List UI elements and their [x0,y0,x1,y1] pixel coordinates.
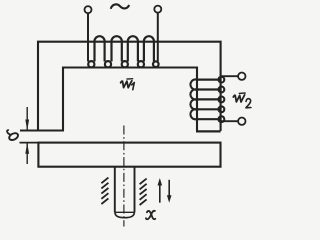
left pole face with extension line [20,130,64,132]
motion arrow up [159,184,161,203]
W2 output wire (bottom) [221,120,238,122]
label w2 subscript 2 [246,99,251,108]
plunger rod [115,167,135,213]
winding W2 turn bars on right limb [197,80,221,120]
W2 output wire (top) [221,75,239,77]
winding W2 right turn loop 3 [219,97,225,103]
winding W1 bottom turn loop 5 [153,61,159,67]
label w2 [233,95,244,102]
core yoke inner window outline [63,68,197,132]
label w2 overbar [239,92,246,94]
winding W1 bottom turn loop 4 [138,61,144,67]
AC sine symbol [111,4,130,8]
winding W1 bottom turn loop 1 [88,61,94,67]
wire from left AC terminal [87,13,89,62]
plunger rod rounded tip [115,212,134,217]
AC source terminal (right) [154,6,161,13]
air gap dimension line upper segment with down arrowhead [26,107,28,130]
W2 output terminal (top) [238,73,245,80]
winding W2 right turn loop 5 [219,116,225,122]
winding W1 bottom turn loop 3 [122,61,128,67]
label w1 overbar [126,78,133,80]
label x (displacement) [147,211,155,219]
label w1 [121,81,132,88]
right pole face [196,130,221,132]
winding W2 right turn loop 4 [219,106,225,112]
label delta (air gap) [7,130,19,141]
guide hatching (right fixed support) [140,179,147,205]
motion arrow down [168,180,170,197]
winding W1 hump arcs on top limb [94,36,153,61]
guide hatching (left fixed support) [101,178,108,204]
armature top edge extension line [20,142,39,144]
winding W2 left hump arcs [190,79,198,119]
winding W1 bottom turn loop 2 [105,61,111,67]
wire from right AC terminal [157,12,159,61]
plunger rod shoulder line [115,211,135,213]
W2 output terminal (bottom) [238,118,245,125]
core yoke (inverted-U magnetic core, outer outline) [38,42,221,131]
label w1 subscript 1 [132,83,135,90]
centerline (dash-dot axis) [123,126,125,227]
AC source terminal (left) [85,6,92,13]
winding W2 right turn loop 2 [219,87,225,93]
armature (movable bar) [38,143,220,167]
air gap dimension line lower segment with up arrowhead [26,143,28,164]
winding W2 right turn loop 1 [219,77,225,83]
